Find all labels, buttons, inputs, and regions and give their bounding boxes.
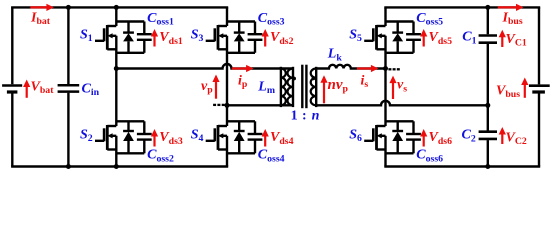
svg-text:Coss4: Coss4 (258, 148, 285, 165)
arrow is (357, 65, 379, 72)
capacitor Coss2 (137, 121, 152, 153)
wire S2 top bar (116, 120, 144, 122)
label Cin (82, 81, 100, 98)
svg-text:Coss6: Coss6 (416, 148, 443, 165)
svg-text:VC1: VC1 (506, 32, 527, 49)
transistor S5 MOSFET (364, 25, 385, 50)
wire right edge lower (538, 93, 540, 166)
wire S1 top bar (116, 20, 144, 22)
label Vds5 (429, 30, 453, 47)
node leg1 top (114, 5, 119, 10)
svg-text:Coss2: Coss2 (147, 148, 174, 165)
wire S2 bottom bar (116, 152, 144, 154)
label Coss2 (147, 148, 174, 165)
label S1 (80, 28, 93, 45)
label Coss1 (147, 11, 174, 28)
svg-text:Lk: Lk (327, 47, 343, 64)
wire leg1 lower (115, 136, 117, 167)
arrow Vds1 (151, 29, 158, 47)
wire S5 bottom bar (386, 52, 414, 54)
label C2 (462, 128, 476, 145)
svg-text:Coss1: Coss1 (147, 11, 174, 28)
wire secondary bottom with hop over leg3 (316, 101, 488, 106)
arrow ip (232, 65, 254, 72)
wire leg1 middle (115, 36, 117, 126)
arrow VC2 (499, 127, 506, 144)
svg-text:Vds4: Vds4 (270, 130, 294, 147)
node leg1 bottom (114, 164, 119, 169)
capacitor Coss5 (406, 22, 421, 53)
arrow Vds4 (262, 129, 269, 147)
wire left edge lower (11, 93, 13, 166)
wire left edge upper (11, 7, 13, 84)
svg-text:VC2: VC2 (506, 130, 527, 147)
transistor S6 MOSFET (364, 125, 385, 150)
label Lm (257, 79, 275, 96)
label S5 (349, 28, 362, 45)
arrow vp (212, 75, 219, 99)
inductor Lm magnetizing (281, 67, 286, 107)
label S3 (191, 28, 204, 45)
capacitor Coss1 (137, 22, 152, 53)
svg-text:S4: S4 (191, 128, 204, 145)
wire S5 top bar (386, 20, 414, 22)
wire leg3 drain stub (384, 7, 386, 26)
svg-text:S6: S6 (349, 128, 362, 145)
battery Vbat plates (2, 86, 22, 93)
label Coss5 (416, 11, 443, 28)
svg-text:S3: S3 (191, 28, 204, 45)
node vp dots (213, 104, 225, 106)
capacitor Cin (58, 7, 80, 166)
svg-text:Ibat: Ibat (30, 11, 51, 28)
node C leg bottom (485, 164, 490, 169)
capacitor Coss6 (406, 121, 421, 153)
svg-text:S5: S5 (349, 28, 362, 45)
inductor transformer primary winding (288, 67, 294, 107)
label turns ratio 1:n (291, 108, 320, 123)
label Ibus (502, 10, 523, 27)
wire S3 top bar (227, 20, 255, 22)
wire S1 bottom bar (116, 52, 144, 54)
svg-text:S1: S1 (80, 28, 93, 45)
wire S4 bottom bar (227, 152, 255, 154)
arrow Vds2 (262, 29, 269, 47)
label Vbus (496, 83, 520, 100)
node leg2 midpoint (225, 103, 230, 108)
capacitor C2 (479, 105, 497, 166)
svg-text:Vds5: Vds5 (429, 30, 453, 47)
transistor S3 MOSFET (206, 25, 227, 50)
svg-text:vs: vs (397, 78, 407, 95)
wire leg2 drain stub (226, 7, 228, 26)
diode S3 body diode (234, 22, 245, 53)
svg-text:Cin: Cin (82, 81, 100, 98)
label vp (201, 79, 213, 96)
label Lk (327, 47, 343, 64)
wire S6 top bar (386, 120, 414, 122)
transistor S4 MOSFET (206, 125, 227, 150)
arrow Vds5 (420, 29, 427, 47)
label S4 (191, 128, 204, 145)
label Coss6 (416, 148, 443, 165)
svg-text:vp: vp (201, 79, 213, 96)
svg-text:Vbus: Vbus (496, 83, 520, 100)
diode S4 body diode (234, 121, 245, 153)
capacitor Coss3 (248, 22, 263, 53)
svg-text:ip: ip (238, 74, 248, 91)
label VC1 (506, 32, 527, 49)
wire S4 top bar (227, 120, 255, 122)
inductor transformer secondary winding (311, 67, 317, 107)
node C leg midpoint (485, 103, 490, 108)
label VC2 (506, 130, 527, 147)
label vs (397, 78, 407, 95)
transistor S1 MOSFET (95, 25, 116, 50)
node primary polarity dot (292, 77, 296, 81)
svg-text:Vds1: Vds1 (159, 30, 183, 47)
label Vds3 (159, 130, 183, 147)
arrow Ibat (30, 4, 54, 11)
arrow Vbat (23, 80, 30, 98)
label nvp (328, 77, 349, 95)
label Vds2 (270, 30, 294, 47)
label Coss4 (258, 148, 285, 165)
arrow vs (389, 76, 396, 99)
diode S6 body diode (392, 121, 403, 153)
arrow Ibus (498, 4, 524, 11)
svg-text:1:n: 1:n (291, 108, 320, 123)
node leg3 midpoint (383, 66, 388, 71)
wire left bottom rail (11, 165, 228, 167)
wire left top rail (11, 6, 228, 8)
node secondary polarity dot (312, 77, 316, 81)
capacitor Coss4 (248, 121, 263, 153)
wire leg3 lower (384, 136, 386, 167)
arrow VC1 (499, 30, 506, 47)
svg-text:S2: S2 (80, 128, 93, 145)
wire S3 bottom bar (227, 52, 255, 54)
svg-text:Vds6: Vds6 (429, 130, 453, 147)
node vs dots (388, 68, 399, 70)
wire leg1 drain stub (115, 7, 117, 26)
node Cin top (66, 5, 71, 10)
arrow Vds6 (420, 129, 427, 147)
label S6 (349, 128, 362, 145)
capacitor C1 (479, 7, 497, 105)
wire right bottom rail (384, 165, 540, 167)
label Ibat (30, 11, 51, 28)
wire transformer core (302, 65, 306, 109)
svg-text:nvp: nvp (328, 77, 349, 95)
label Coss3 (258, 11, 285, 28)
node Cin bottom (66, 164, 71, 169)
wire primary bottom (227, 104, 293, 106)
diode S2 body diode (123, 121, 134, 153)
wire leg3 middle (384, 36, 386, 126)
svg-text:Coss5: Coss5 (416, 11, 443, 28)
svg-text:Ibus: Ibus (502, 10, 523, 27)
wire leg2 middle (226, 36, 228, 126)
node C leg top (485, 5, 490, 10)
arrow Vbus (521, 78, 528, 98)
wire leg2 lower (226, 136, 228, 167)
wire primary top with hop over leg2 (116, 64, 293, 69)
svg-text:Vds2: Vds2 (270, 30, 294, 47)
diode S1 body diode (123, 22, 134, 53)
arrow Vds3 (151, 129, 158, 147)
svg-text:Vds3: Vds3 (159, 130, 183, 147)
wire S6 bottom bar (386, 152, 414, 154)
svg-text:Vbat: Vbat (31, 79, 55, 96)
svg-text:is: is (361, 74, 369, 91)
label Vbat (31, 79, 55, 96)
inductor Lk leakage + wire secondary top (316, 65, 385, 69)
svg-text:C2: C2 (462, 128, 476, 145)
svg-text:Coss3: Coss3 (258, 11, 285, 28)
transistor S2 MOSFET (95, 125, 116, 150)
battery Vbus plates (529, 86, 550, 92)
node leg1 midpoint (114, 66, 119, 71)
label Vds1 (159, 30, 183, 47)
label S2 (80, 128, 93, 145)
label C1 (462, 30, 476, 47)
wire right edge upper (538, 7, 540, 84)
label Vds4 (270, 130, 294, 147)
label is (361, 74, 369, 91)
arrow nvp (320, 75, 327, 103)
diode S5 body diode (392, 22, 403, 53)
label Vds6 (429, 130, 453, 147)
label ip (238, 74, 248, 91)
svg-text:C1: C1 (462, 30, 476, 47)
svg-text:Lm: Lm (257, 79, 275, 96)
wire right top rail (384, 6, 540, 8)
